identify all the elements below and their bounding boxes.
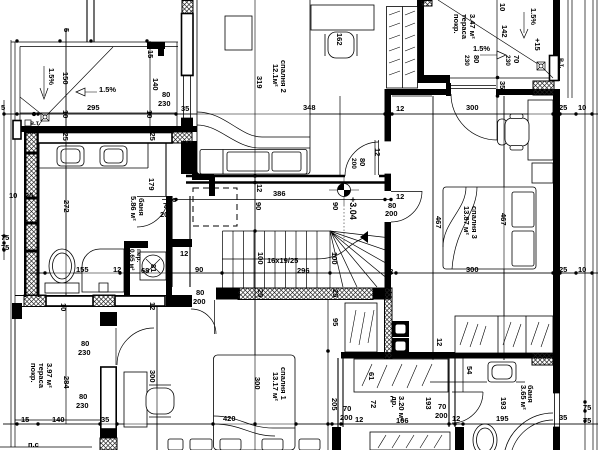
svg-text:230: 230 <box>463 55 470 66</box>
svg-text:195: 195 <box>496 414 509 423</box>
svg-text:3.97 м²: 3.97 м² <box>45 363 54 388</box>
svg-text:в.т.: в.т. <box>30 120 40 127</box>
svg-text:300: 300 <box>148 370 157 383</box>
svg-text:10: 10 <box>578 265 586 274</box>
svg-text:80: 80 <box>472 55 481 63</box>
svg-text:13.17 м²: 13.17 м² <box>271 372 280 401</box>
svg-text:12: 12 <box>373 148 382 156</box>
svg-text:155: 155 <box>76 265 89 274</box>
svg-text:162: 162 <box>335 33 344 46</box>
svg-text:80: 80 <box>81 339 89 348</box>
svg-text:179: 179 <box>147 178 156 191</box>
svg-text:300: 300 <box>253 377 262 390</box>
svg-text:80: 80 <box>358 158 367 166</box>
svg-text:10: 10 <box>59 303 68 311</box>
svg-text:193: 193 <box>424 397 433 410</box>
svg-text:12: 12 <box>180 249 188 258</box>
svg-text:1.5%: 1.5% <box>473 44 490 53</box>
svg-text:230: 230 <box>504 55 511 66</box>
svg-text:205: 205 <box>330 398 339 411</box>
svg-text:35: 35 <box>498 81 507 89</box>
svg-text:тераса: тераса <box>37 363 46 389</box>
svg-text:70: 70 <box>163 201 171 210</box>
svg-text:25: 25 <box>25 191 33 200</box>
svg-text:1.5%: 1.5% <box>99 85 116 94</box>
svg-text:25: 25 <box>331 289 340 297</box>
svg-text:150: 150 <box>61 72 70 85</box>
svg-text:пер.: пер. <box>135 249 142 263</box>
svg-text:25: 25 <box>559 265 567 274</box>
svg-text:90: 90 <box>331 202 340 210</box>
svg-text:230: 230 <box>158 99 171 108</box>
svg-text:100: 100 <box>256 252 265 265</box>
svg-text:5.86 м²: 5.86 м² <box>129 196 138 221</box>
svg-text:10: 10 <box>498 3 507 11</box>
svg-text:12.1м²: 12.1м² <box>271 64 280 87</box>
svg-text:покр.: покр. <box>29 363 38 383</box>
svg-text:0.65 м²: 0.65 м² <box>128 249 135 271</box>
svg-text:420: 420 <box>223 414 236 423</box>
svg-text:п.с: п.с <box>28 440 39 449</box>
svg-text:в.т.: в.т. <box>558 58 565 68</box>
svg-text:200: 200 <box>340 413 353 422</box>
svg-text:12: 12 <box>396 104 404 113</box>
svg-text:25: 25 <box>148 133 157 141</box>
svg-text:200: 200 <box>160 210 173 219</box>
svg-text:3.47 м²: 3.47 м² <box>468 14 477 39</box>
svg-text:230: 230 <box>76 401 89 410</box>
svg-text:16x19/25: 16x19/25 <box>267 256 298 265</box>
svg-text:5: 5 <box>1 103 5 112</box>
svg-text:12: 12 <box>452 414 460 423</box>
svg-text:95: 95 <box>331 318 340 326</box>
svg-text:12: 12 <box>255 184 264 192</box>
svg-text:15: 15 <box>21 415 29 424</box>
svg-text:35: 35 <box>101 415 109 424</box>
svg-text:10: 10 <box>9 191 17 200</box>
svg-text:90: 90 <box>254 202 263 210</box>
svg-text:13.87 м²: 13.87 м² <box>462 206 471 235</box>
svg-text:80: 80 <box>162 90 170 99</box>
svg-text:386: 386 <box>273 189 286 198</box>
svg-text:12: 12 <box>355 415 363 424</box>
svg-text:10: 10 <box>578 103 586 112</box>
svg-text:61: 61 <box>367 372 376 380</box>
svg-text:284: 284 <box>62 376 71 389</box>
svg-text:140: 140 <box>52 415 65 424</box>
svg-text:272: 272 <box>62 200 71 213</box>
svg-text:25: 25 <box>61 133 70 141</box>
svg-text:1.5%: 1.5% <box>47 68 56 85</box>
svg-text:72: 72 <box>369 400 378 408</box>
svg-text:81: 81 <box>149 264 158 272</box>
svg-text:25: 25 <box>256 289 265 297</box>
svg-text:12: 12 <box>435 338 444 346</box>
svg-text:35: 35 <box>181 104 189 113</box>
svg-text:12: 12 <box>396 192 404 201</box>
svg-text:75: 75 <box>1 243 9 252</box>
svg-text:3.20 м²: 3.20 м² <box>397 396 406 421</box>
svg-text:тераса: тераса <box>460 14 469 40</box>
svg-text:12: 12 <box>148 302 157 310</box>
svg-text:467: 467 <box>499 213 508 226</box>
svg-text:80: 80 <box>196 288 204 297</box>
svg-text:193: 193 <box>499 397 508 410</box>
svg-text:295: 295 <box>87 103 100 112</box>
svg-text:5: 5 <box>62 28 71 32</box>
svg-text:230: 230 <box>78 348 91 357</box>
svg-text:68: 68 <box>141 266 149 275</box>
svg-text:покр.: покр. <box>452 14 461 34</box>
svg-text:75: 75 <box>1 233 9 242</box>
svg-text:200: 200 <box>435 411 448 420</box>
svg-text:296: 296 <box>297 266 310 275</box>
svg-text:12: 12 <box>385 267 393 276</box>
svg-text:+15: +15 <box>533 38 542 51</box>
svg-text:300: 300 <box>466 103 479 112</box>
svg-text:142: 142 <box>500 25 509 38</box>
svg-text:80: 80 <box>79 392 87 401</box>
svg-text:200: 200 <box>193 297 206 306</box>
svg-text:348: 348 <box>303 103 316 112</box>
svg-text:3.65 м²: 3.65 м² <box>519 385 528 410</box>
svg-text:300: 300 <box>466 265 479 274</box>
svg-text:1.5%: 1.5% <box>529 8 538 25</box>
svg-text:70: 70 <box>512 55 521 63</box>
svg-text:200: 200 <box>385 209 398 218</box>
svg-text:54: 54 <box>465 366 474 375</box>
svg-text:12: 12 <box>113 265 121 274</box>
svg-text:70: 70 <box>343 404 351 413</box>
svg-text:25: 25 <box>559 103 567 112</box>
svg-text:100: 100 <box>330 252 339 265</box>
svg-text:15: 15 <box>146 50 155 58</box>
svg-text:140: 140 <box>151 78 160 91</box>
svg-text:90: 90 <box>195 265 203 274</box>
svg-text:200: 200 <box>350 158 357 169</box>
svg-text:75: 75 <box>583 416 591 425</box>
svg-text:319: 319 <box>255 76 264 89</box>
svg-text:+3.04: +3.04 <box>348 197 358 220</box>
svg-text:75: 75 <box>583 403 591 412</box>
svg-text:70: 70 <box>438 402 446 411</box>
svg-text:467: 467 <box>434 216 443 229</box>
svg-text:35: 35 <box>559 413 567 422</box>
